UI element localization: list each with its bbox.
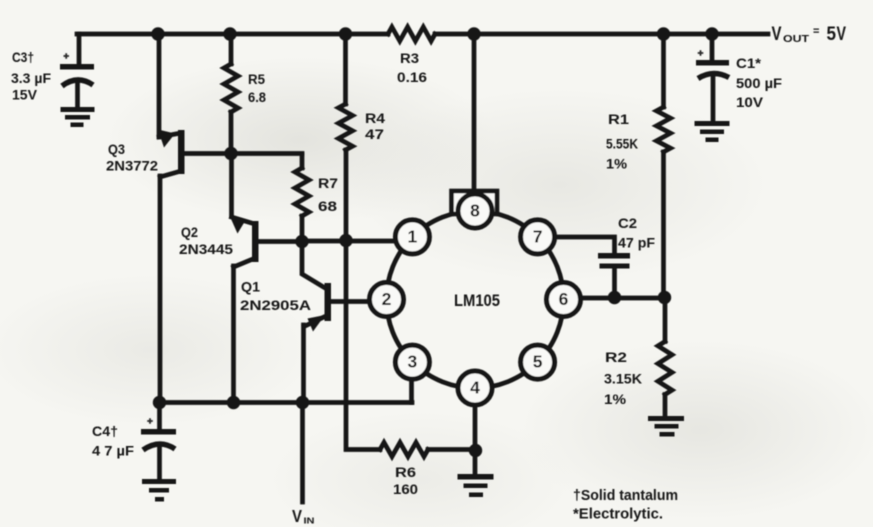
transistor Q2 emitter diagonal — [232, 217, 254, 224]
wire C3 lower plate to ground — [75, 80, 80, 108]
wire R1 bottom to node — [661, 152, 666, 298]
transistor Q1 collector diagonal — [302, 242, 326, 289]
svg-text:IN: IN — [304, 516, 315, 526]
transistor Q3 base bar — [178, 130, 185, 174]
wire R4 bottom down to node and R6 — [346, 150, 380, 450]
node: C2 / pin6 wire — [608, 291, 621, 304]
svg-text:R2: R2 — [605, 350, 627, 365]
svg-text:7: 7 — [533, 227, 543, 247]
node: VIN rail / Q3 collector / C4 — [153, 396, 166, 409]
svg-text:†Solid tantalum: †Solid tantalum — [573, 487, 678, 504]
transistor Q2 base wire — [258, 239, 302, 244]
wire Q1 base to LM105 pin 2 — [331, 299, 372, 304]
ground (C4) — [142, 479, 176, 502]
resistor R2 — [658, 342, 672, 395]
node: rail / R4 — [339, 27, 352, 40]
ground (pin 4 / R6) — [458, 474, 494, 497]
wire C3 top connection — [77, 34, 82, 64]
resistor R5 — [224, 64, 238, 112]
resistor R3 — [388, 27, 435, 41]
svg-text:3: 3 — [408, 352, 418, 372]
label C2 value — [618, 216, 655, 251]
svg-text:4: 4 — [470, 378, 480, 398]
label R5 value — [248, 72, 266, 105]
wire R1 top (rail to zigzag) — [661, 34, 666, 107]
resistor R6 — [380, 443, 428, 457]
wire R2 bottom to ground — [663, 395, 668, 418]
label R7 value — [318, 176, 338, 214]
svg-text:47 pF: 47 pF — [618, 236, 655, 251]
wire LM105 pin 8 riser to rail — [472, 34, 477, 192]
node: R6 / pin 4 / ground — [469, 444, 482, 457]
svg-text:6: 6 — [559, 289, 569, 309]
svg-text:5: 5 — [533, 352, 543, 372]
transistor Q2 base bar — [252, 221, 259, 262]
transistor Q3 collector diagonal — [160, 171, 181, 177]
svg-text:2: 2 — [382, 289, 392, 309]
wire R7 bottom to node — [300, 216, 305, 242]
wire Q2 emitter riser — [229, 154, 234, 217]
wire R6 right end to ground node — [428, 447, 476, 452]
transistor Q1 emitter diagonal — [304, 316, 327, 403]
svg-text:R1: R1 — [608, 112, 630, 127]
svg-text:500 µF: 500 µF — [736, 76, 782, 91]
svg-text:LM105: LM105 — [454, 292, 500, 310]
svg-text:8: 8 — [470, 201, 480, 221]
transistor Q2 collector diagonal — [234, 259, 254, 267]
wire VIN rail (bottom horizontal) — [159, 400, 412, 405]
label Q2 — [179, 225, 234, 257]
node: rail / R5 — [223, 27, 236, 40]
U1 pin 3 — [395, 345, 429, 379]
node: VIN rail / Q1 emitter / VIN drop — [296, 396, 309, 409]
wire R5 top (rail to zigzag) — [229, 34, 234, 64]
svg-text:OUT: OUT — [783, 33, 810, 45]
svg-text:=: = — [813, 26, 819, 38]
wire top rail VOUT net left segment — [77, 32, 388, 37]
U1 pin 5 — [521, 345, 555, 379]
label R2 value — [604, 350, 642, 407]
svg-text:R7: R7 — [318, 176, 338, 191]
svg-text:Q2: Q2 — [181, 225, 198, 240]
label R4 value — [365, 111, 386, 142]
node: rail / R1 — [657, 27, 670, 40]
node: VIN rail / Q2 collector — [227, 396, 240, 409]
wire C1 top from rail — [710, 34, 715, 60]
ground (R2) — [648, 416, 684, 437]
label Q3 — [106, 142, 158, 174]
label VOUT = 5V — [772, 24, 847, 45]
svg-text:47: 47 — [365, 127, 384, 142]
U1 pin 7 — [521, 220, 555, 254]
wire VIN input drop — [300, 403, 305, 503]
svg-text:1%: 1% — [606, 157, 627, 172]
wire Q3 emitter riser to rail — [157, 34, 162, 137]
svg-text:C1*: C1* — [736, 56, 762, 71]
svg-text:68: 68 — [318, 199, 338, 214]
node: Q3 base / R5 / Q2 emitter — [224, 147, 237, 160]
label R1 value — [606, 112, 638, 172]
ground (C1) — [695, 121, 730, 142]
svg-text:1: 1 — [408, 227, 418, 247]
transistor Q1 emitter arrow (PNP, pointing into base) — [308, 315, 326, 332]
node: R1 / R2 / pin6 wire — [658, 291, 671, 304]
svg-text:R3: R3 — [400, 51, 420, 66]
wire C1 bottom plate to ground — [711, 75, 716, 121]
svg-text:V: V — [292, 506, 302, 526]
svg-text:3.15K: 3.15K — [604, 372, 642, 387]
svg-text:Q3: Q3 — [108, 142, 125, 157]
capacitor C3 — [60, 53, 94, 86]
wire LM105 pin 3 riser — [409, 377, 414, 403]
wire LM105 pin 4 to ground node — [473, 404, 478, 474]
svg-text:15V: 15V — [12, 88, 37, 103]
label C1 value — [736, 56, 782, 110]
wire R4 top (rail to zigzag) — [343, 34, 348, 104]
wire C4 top from VIN rail — [157, 403, 162, 430]
wire R2 top from node — [663, 298, 668, 342]
wire top rail VOUT net right segment — [435, 32, 768, 37]
svg-text:1%: 1% — [604, 392, 626, 407]
transistor Q3 base wire — [184, 151, 302, 156]
label VIN — [292, 506, 315, 526]
label Q1 — [240, 280, 311, 314]
wire LM105 pin 6 to feedback node — [579, 296, 665, 301]
svg-text:R6: R6 — [395, 465, 417, 480]
ground (C3) — [61, 107, 95, 127]
svg-text:0.16: 0.16 — [397, 70, 428, 85]
svg-text:R5: R5 — [248, 72, 265, 87]
svg-text:5: 5 — [827, 24, 837, 45]
resistor R1 — [657, 107, 671, 152]
svg-text:*Electrolytic.: *Electrolytic. — [573, 506, 663, 523]
label R3 value — [397, 51, 428, 85]
node: rail / pin 8 riser — [467, 27, 480, 40]
label C4 value — [92, 424, 134, 459]
svg-text:C3†: C3† — [12, 50, 34, 65]
svg-text:160: 160 — [393, 482, 418, 497]
resistor R7 — [295, 168, 309, 216]
wire C2 bottom to node — [612, 268, 617, 298]
wire node to LM105 pin 1 — [302, 239, 398, 244]
node: R4 / pin1 wire crossing — [339, 234, 352, 247]
svg-text:V: V — [772, 24, 782, 45]
transistor Q3 emitter arrow — [158, 130, 175, 148]
capacitor C2 — [598, 253, 630, 269]
svg-text:6.8: 6.8 — [248, 90, 266, 105]
transistor Q2 emitter arrow — [230, 216, 247, 234]
U1 pin 1 — [395, 220, 429, 254]
svg-text:2N3772: 2N3772 — [106, 159, 158, 174]
U1 pin 4 — [458, 371, 492, 405]
op-amp U1 LM105 regulator can outline — [387, 211, 564, 388]
svg-text:2N2905A: 2N2905A — [240, 298, 311, 313]
U1 pin 8 — [458, 194, 492, 228]
wire Q3 collector drop to VIN rail — [158, 176, 163, 402]
svg-text:5.55K: 5.55K — [606, 137, 638, 152]
node: R7 / Q2 base / Q1 collector / pin1 wire — [295, 235, 308, 248]
svg-text:C4†: C4† — [92, 424, 118, 439]
capacitor C4 — [141, 418, 176, 450]
label R6 value — [393, 465, 418, 497]
transistor Q1 base bar — [325, 283, 332, 321]
svg-text:4 7 µF: 4 7 µF — [92, 444, 134, 459]
capacitor C1 — [696, 50, 729, 78]
svg-text:3.3 µF: 3.3 µF — [11, 71, 51, 86]
U1 pin 2 — [370, 283, 404, 317]
svg-text:10V: 10V — [736, 95, 763, 110]
wire C4 bottom plate to ground — [157, 446, 162, 480]
node: rail / C1 — [705, 27, 718, 40]
svg-text:Q1: Q1 — [241, 280, 261, 295]
wire LM105 pin 7 to C2 — [552, 237, 615, 253]
svg-text:R4: R4 — [365, 111, 386, 126]
U1 pin 6 — [547, 283, 581, 317]
svg-text:2N3445: 2N3445 — [179, 242, 234, 257]
label C3 value — [11, 50, 51, 103]
transistor Q3 emitter diagonal — [159, 133, 181, 137]
resistor R4 — [339, 104, 353, 150]
wire Q2 collector drop to VIN rail — [231, 266, 236, 403]
svg-text:C2: C2 — [618, 216, 637, 231]
svg-text:V: V — [837, 24, 847, 45]
wire R7 top connection from Q3 base line — [300, 155, 305, 169]
U1 can tab at pin 8 — [452, 191, 498, 214]
node: rail / Q3 emitter — [151, 27, 164, 40]
wire R5 bottom to base node — [229, 112, 234, 154]
